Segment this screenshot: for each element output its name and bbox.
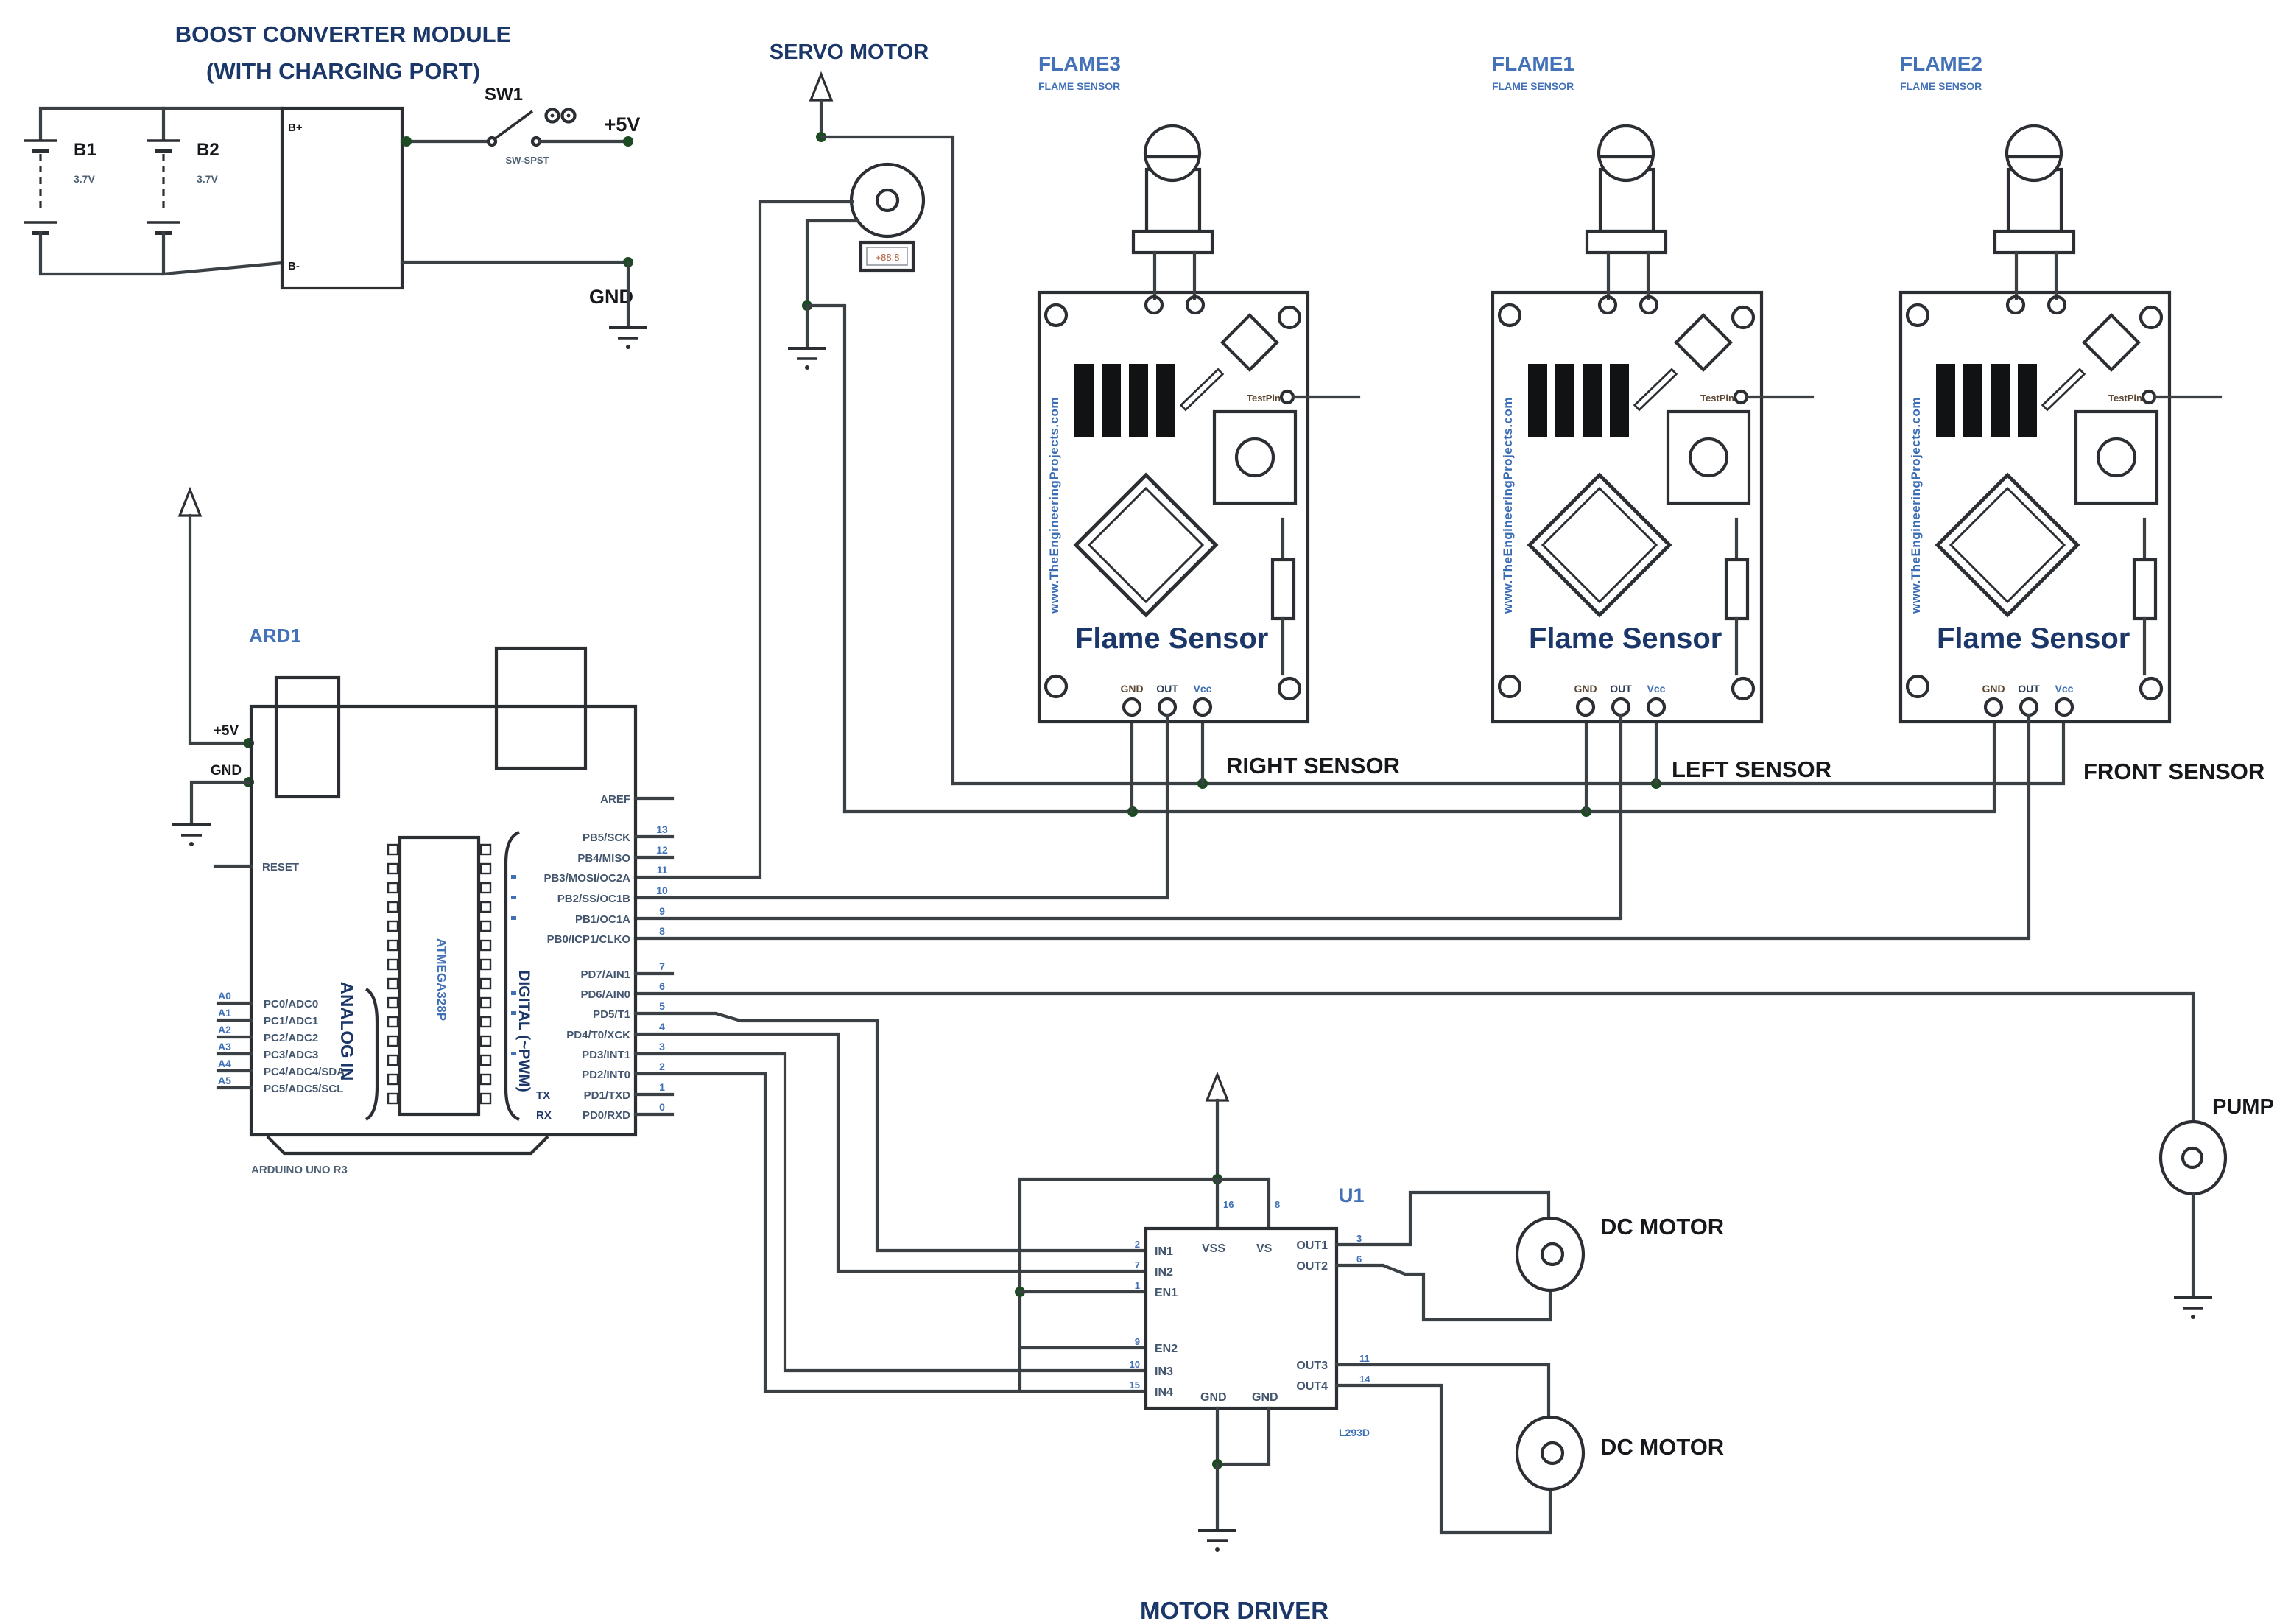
- wire GND rail to FLAME2 GND: [845, 716, 1994, 812]
- wire U1 GND down: [1216, 1464, 1219, 1528]
- svg-text:DC MOTOR: DC MOTOR: [1600, 1434, 1724, 1460]
- U1 chip body: [1146, 1228, 1337, 1408]
- svg-text:GND: GND: [1200, 1391, 1227, 1404]
- power +5V arrow (arduino): [180, 490, 200, 516]
- svg-text:IN2: IN2: [1155, 1266, 1173, 1279]
- svg-text:OUT2: OUT2: [1296, 1260, 1328, 1273]
- pin AREF stub: [636, 797, 672, 800]
- svg-text:3: 3: [659, 1041, 665, 1052]
- svg-text:5: 5: [659, 1000, 665, 1012]
- wire FLAME3 GND drop: [1130, 716, 1133, 812]
- node GND junction: [623, 257, 633, 267]
- digital bracket: [506, 832, 519, 1119]
- pin numbers A0-A5: [218, 990, 231, 1086]
- wire pump to ground: [2192, 1194, 2195, 1296]
- svg-text:1: 1: [1135, 1280, 1140, 1291]
- svg-text:3: 3: [1356, 1233, 1362, 1244]
- ground (arduino): [172, 825, 211, 846]
- svg-text:3.7V: 3.7V: [74, 173, 95, 185]
- junction servo +5V: [816, 132, 826, 142]
- wire arduino pin 6 to pump: [636, 994, 2193, 1122]
- svg-text:OUT1: OUT1: [1296, 1240, 1328, 1252]
- svg-text:3.7V: 3.7V: [197, 173, 218, 185]
- junction FLAME3 GND on rail: [1127, 806, 1138, 817]
- svg-text:PD7/AIN1: PD7/AIN1: [580, 969, 630, 981]
- wire FLAME2 OUT to arduino pin 8: [636, 716, 2029, 938]
- ground (servo): [788, 348, 826, 370]
- wire FLAME1 Vcc drop: [1655, 716, 1658, 784]
- wire arduino GND to ground: [191, 782, 249, 823]
- wire +5V branch to EN1/EN2: [1020, 1179, 1217, 1391]
- svg-text:FLAME3: FLAME3: [1038, 52, 1121, 75]
- svg-text:14: 14: [1359, 1374, 1370, 1385]
- svg-text:VSS: VSS: [1202, 1242, 1225, 1255]
- svg-text:LEFT SENSOR: LEFT SENSOR: [1672, 756, 1831, 782]
- svg-text:9: 9: [1135, 1336, 1140, 1347]
- svg-text:PC0/ADC0: PC0/ADC0: [264, 998, 318, 1010]
- wire +5V to VS pin: [1217, 1179, 1269, 1228]
- svg-text:2: 2: [659, 1061, 665, 1072]
- svg-text:ARDUINO UNO R3: ARDUINO UNO R3: [251, 1164, 348, 1176]
- svg-text:U1: U1: [1339, 1184, 1365, 1206]
- svg-text:OUT3: OUT3: [1296, 1360, 1328, 1372]
- svg-text:FLAME2: FLAME2: [1900, 52, 1982, 75]
- junction U1 GND: [1212, 1459, 1222, 1469]
- svg-text:B+: B+: [288, 122, 303, 134]
- svg-text:A2: A2: [218, 1024, 231, 1036]
- svg-text:RIGHT SENSOR: RIGHT SENSOR: [1226, 753, 1400, 778]
- svg-text:(WITH CHARGING PORT): (WITH CHARGING PORT): [206, 58, 480, 84]
- svg-text:8: 8: [1275, 1199, 1280, 1210]
- wire EN2: [1020, 1346, 1146, 1349]
- dc motor M1: [1517, 1218, 1583, 1290]
- svg-text:PB4/MISO: PB4/MISO: [577, 852, 630, 865]
- svg-text:PB0/ICP1/CLKO: PB0/ICP1/CLKO: [547, 933, 631, 946]
- svg-text:FLAME SENSOR: FLAME SENSOR: [1900, 80, 1982, 92]
- svg-text:PD2/INT0: PD2/INT0: [582, 1069, 630, 1081]
- svg-text:ARD1: ARD1: [249, 625, 301, 647]
- junction arduino +5V pin: [244, 738, 254, 748]
- pump motor body: [2161, 1122, 2225, 1194]
- svg-text:11: 11: [1359, 1353, 1370, 1364]
- svg-text:6: 6: [659, 980, 665, 992]
- svg-text:13: 13: [656, 823, 668, 835]
- wire servo +5V stem: [820, 100, 823, 137]
- svg-text:SW-SPST: SW-SPST: [506, 155, 549, 166]
- wire U1 GND stubs: [1217, 1408, 1269, 1464]
- arduino bottom trapezoid: [267, 1136, 548, 1153]
- flame sensor module FLAME1: [1493, 126, 1812, 722]
- svg-text:IN4: IN4: [1155, 1386, 1173, 1399]
- IC pins left column: [388, 845, 398, 1103]
- svg-text:MOTOR DRIVER: MOTOR DRIVER: [1140, 1597, 1329, 1624]
- ATMEGA328P IC body: [400, 837, 479, 1114]
- servo readout box: [861, 242, 913, 270]
- svg-text:10: 10: [1130, 1359, 1140, 1370]
- svg-text:FLAME SENSOR: FLAME SENSOR: [1492, 80, 1574, 92]
- svg-text:B1: B1: [74, 140, 96, 160]
- svg-text:PD5/T1: PD5/T1: [593, 1008, 630, 1021]
- svg-text:4: 4: [659, 1021, 665, 1033]
- svg-text:PB1/OC1A: PB1/OC1A: [575, 913, 630, 926]
- junction FLAME1 GND on rail: [1581, 806, 1591, 817]
- wire PD3 to IN3: [636, 1054, 1146, 1371]
- svg-text:FRONT SENSOR: FRONT SENSOR: [2083, 759, 2264, 784]
- wire B2 top stem: [162, 108, 165, 140]
- flame sensor module FLAME2: [1901, 126, 2220, 722]
- svg-text:PC4/ADC4/SDA: PC4/ADC4/SDA: [264, 1066, 345, 1078]
- battery B1: [24, 141, 57, 233]
- svg-text:A1: A1: [218, 1007, 231, 1019]
- wire arduino +5V: [190, 516, 249, 743]
- wire GND node to ground: [627, 262, 630, 326]
- wire Vcc rail to FLAME2 Vcc: [953, 716, 2063, 784]
- pin numbers 13..0: [656, 823, 668, 1113]
- junction EN1: [1015, 1287, 1025, 1297]
- svg-text:PUMP: PUMP: [2212, 1095, 2274, 1119]
- wire PD5 to IN1: [636, 1013, 1146, 1251]
- servo motor body: [851, 164, 923, 236]
- svg-text:PD3/INT1: PD3/INT1: [582, 1049, 630, 1061]
- junction servo ground: [802, 300, 812, 311]
- U1 pin numbers: [1130, 1239, 1140, 1391]
- junction FLAME3 Vcc on rail: [1197, 778, 1208, 789]
- ground (pump): [2174, 1298, 2212, 1319]
- IC pins right column: [481, 845, 490, 1103]
- svg-text:PD1/TXD: PD1/TXD: [584, 1089, 631, 1102]
- svg-text:PB3/MOSI/OC2A: PB3/MOSI/OC2A: [543, 872, 630, 885]
- svg-text:15: 15: [1130, 1379, 1140, 1391]
- svg-text:1: 1: [659, 1081, 665, 1093]
- svg-text:B-: B-: [288, 260, 300, 273]
- svg-text:+5V: +5V: [605, 113, 641, 136]
- ground (motor driver): [1198, 1530, 1236, 1552]
- pin RESET stub: [215, 865, 251, 868]
- svg-text:0: 0: [659, 1101, 665, 1113]
- digital pin stubs 13..8: [636, 837, 672, 1114]
- svg-text:BOOST CONVERTER MODULE: BOOST CONVERTER MODULE: [175, 21, 511, 47]
- ground (boost output): [609, 328, 647, 349]
- battery B2: [147, 141, 180, 233]
- boost converter module box: [282, 108, 402, 288]
- wire OUT1 to motor1: [1337, 1192, 1549, 1245]
- wire servo ground to rail: [807, 306, 845, 812]
- power jack: [496, 648, 585, 768]
- svg-text:12: 12: [656, 844, 668, 856]
- svg-text:+88.8: +88.8: [876, 252, 900, 263]
- svg-text:FLAME SENSOR: FLAME SENSOR: [1038, 80, 1120, 92]
- svg-text:9: 9: [659, 905, 665, 917]
- usb connector: [276, 678, 339, 797]
- wire +5V to Vcc rail: [821, 137, 953, 784]
- junction FLAME1 Vcc on rail: [1651, 778, 1661, 789]
- svg-text:A3: A3: [218, 1041, 231, 1052]
- svg-text:VS: VS: [1256, 1242, 1273, 1255]
- svg-text:SW1: SW1: [485, 85, 523, 105]
- wire EN1: [1020, 1290, 1146, 1293]
- svg-text:TX: TX: [536, 1089, 550, 1102]
- power +5V arrow (servo): [811, 74, 831, 100]
- wire OUT2 to motor1: [1337, 1265, 1550, 1320]
- svg-text:GND: GND: [1252, 1391, 1278, 1404]
- junction U1 +5V node: [1212, 1174, 1222, 1184]
- svg-text:PD4/T0/XCK: PD4/T0/XCK: [566, 1029, 630, 1041]
- svg-text:PC5/ADC5/SCL: PC5/ADC5/SCL: [264, 1083, 343, 1095]
- svg-text:AREF: AREF: [600, 793, 630, 806]
- svg-text:PB2/SS/OC1B: PB2/SS/OC1B: [557, 893, 630, 905]
- arduino board outline: [251, 706, 636, 1135]
- junction arduino GND pin: [244, 777, 254, 787]
- wire servo ground link: [807, 221, 858, 306]
- analog bracket: [366, 989, 377, 1119]
- wire switch to +5V node: [540, 140, 628, 143]
- svg-text:RESET: RESET: [262, 861, 299, 873]
- svg-text:6: 6: [1356, 1254, 1362, 1265]
- svg-text:10: 10: [656, 885, 668, 896]
- wire battery bottom rail: [41, 233, 282, 274]
- wire servo gnd stem down: [806, 306, 809, 346]
- dc motor M2: [1517, 1417, 1583, 1489]
- svg-text:ATMEGA328P: ATMEGA328P: [434, 938, 448, 1021]
- svg-text:L293D: L293D: [1339, 1427, 1370, 1438]
- svg-text:16: 16: [1223, 1199, 1234, 1210]
- pwm marks: [511, 875, 516, 1055]
- wire B2 bottom stem: [162, 233, 165, 274]
- junction at boost output: [401, 136, 412, 147]
- wire PD2 to IN4: [636, 1074, 1146, 1391]
- svg-text:GND: GND: [211, 763, 242, 778]
- svg-text:OUT4: OUT4: [1296, 1380, 1328, 1393]
- svg-text:IN3: IN3: [1155, 1365, 1173, 1378]
- wire servo signal to arduino pin 11: [636, 202, 852, 877]
- svg-text:SERVO MOTOR: SERVO MOTOR: [770, 41, 929, 64]
- wire PD4 to IN2: [636, 1034, 1146, 1271]
- svg-text:2: 2: [1135, 1239, 1140, 1250]
- svg-text:7: 7: [1135, 1259, 1140, 1270]
- svg-text:DIGITAL (~PWM): DIGITAL (~PWM): [515, 970, 532, 1092]
- node +5V junction: [623, 136, 633, 147]
- wire OUT4 to motor2: [1337, 1385, 1550, 1533]
- analog pin labels: [264, 998, 345, 1095]
- wire FLAME3 Vcc drop: [1201, 716, 1204, 784]
- svg-text:RX: RX: [536, 1109, 552, 1122]
- flame sensor module FLAME3: [1039, 126, 1359, 722]
- svg-text:PB5/SCK: PB5/SCK: [583, 832, 630, 844]
- analog pin stubs A0-A5: [218, 1003, 251, 1088]
- power +5V arrow (motor driver): [1207, 1075, 1228, 1100]
- wire VSS stub: [1216, 1179, 1219, 1228]
- U1 pin labels: [1155, 1242, 1278, 1404]
- svg-text:7: 7: [659, 960, 665, 972]
- switch SW1: [488, 110, 575, 146]
- svg-text:DC MOTOR: DC MOTOR: [1600, 1214, 1724, 1240]
- svg-text:A4: A4: [218, 1058, 231, 1069]
- svg-text:PC3/ADC3: PC3/ADC3: [264, 1049, 318, 1061]
- wire boost B- to GND node: [402, 261, 628, 264]
- svg-text:+5V: +5V: [214, 723, 239, 739]
- svg-text:A5: A5: [218, 1075, 231, 1086]
- wire boost output to switch: [402, 140, 489, 143]
- svg-text:FLAME1: FLAME1: [1492, 52, 1574, 75]
- svg-text:IN1: IN1: [1155, 1245, 1173, 1258]
- wire OUT3 to motor2: [1337, 1365, 1549, 1417]
- svg-text:8: 8: [659, 925, 665, 937]
- svg-text:A0: A0: [218, 990, 231, 1002]
- wire FLAME1 GND drop: [1585, 716, 1588, 812]
- svg-text:PD0/RXD: PD0/RXD: [583, 1109, 630, 1122]
- digital pin labels right side: [543, 832, 630, 1122]
- wire FLAME3 OUT to arduino pin 10: [636, 716, 1167, 898]
- svg-text:11: 11: [657, 864, 668, 876]
- svg-text:EN2: EN2: [1155, 1343, 1178, 1355]
- svg-text:B2: B2: [197, 140, 219, 160]
- wire +5V stem to VSS node: [1216, 1100, 1219, 1179]
- svg-text:EN1: EN1: [1155, 1287, 1178, 1299]
- wire FLAME1 OUT to arduino pin 9: [636, 716, 1621, 918]
- svg-text:PC1/ADC1: PC1/ADC1: [264, 1015, 318, 1027]
- svg-text:PC2/ADC2: PC2/ADC2: [264, 1032, 318, 1044]
- wire battery top rail: [41, 108, 282, 140]
- svg-text:PD6/AIN0: PD6/AIN0: [580, 988, 630, 1001]
